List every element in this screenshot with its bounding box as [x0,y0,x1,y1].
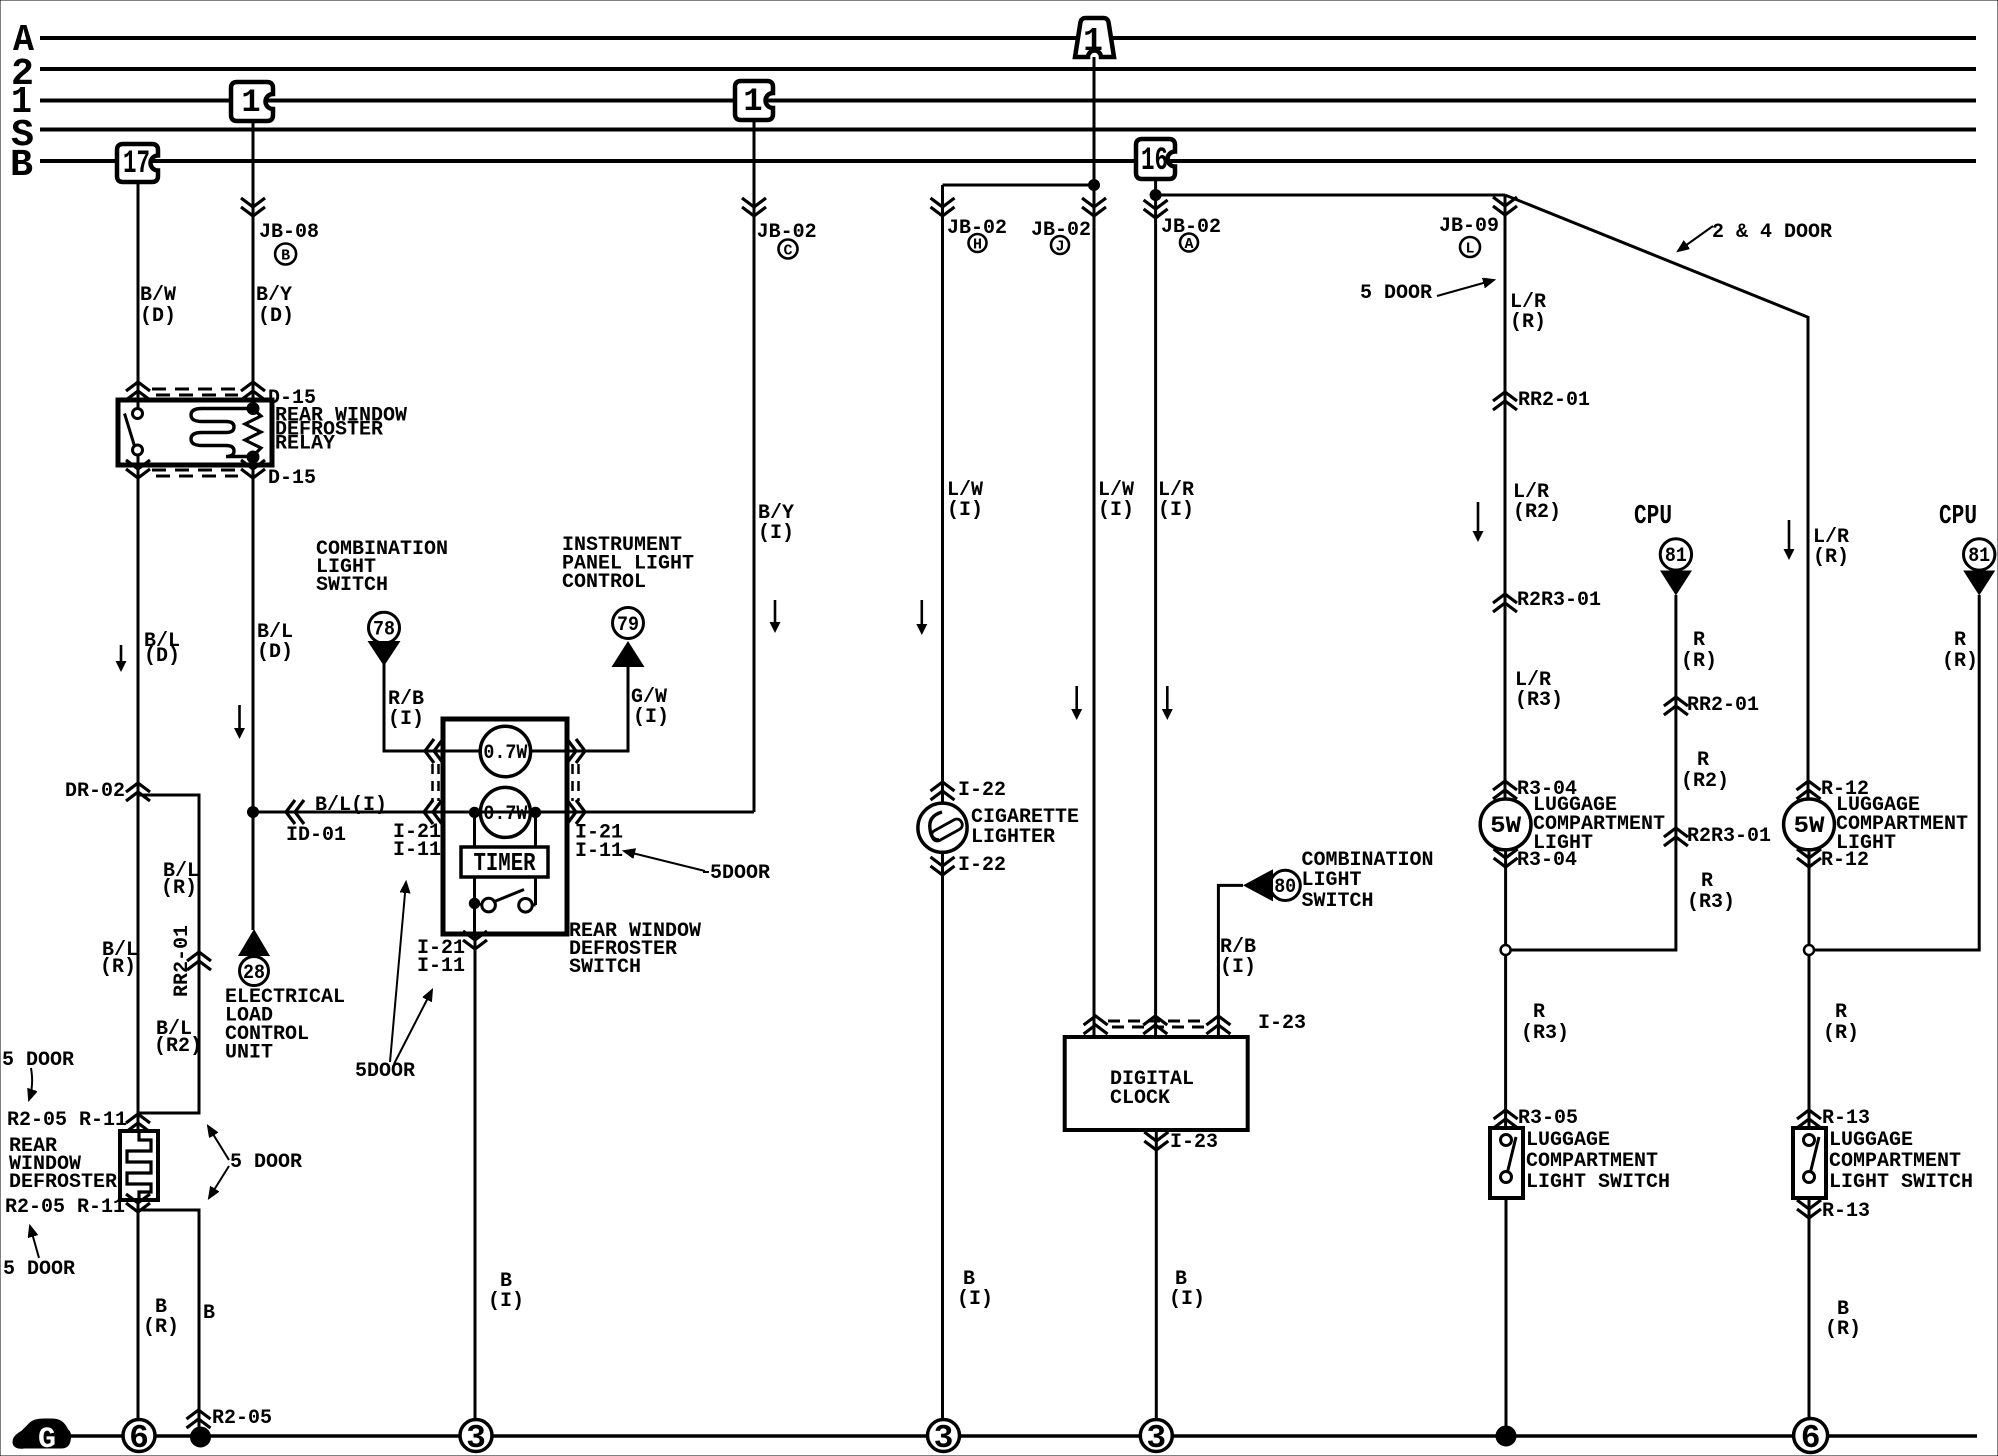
bulb 5W right luggage compartment light [1784,799,1835,850]
svg-text:L: L [1465,241,1474,258]
svg-text:SWITCH: SWITCH [1302,890,1374,913]
label L/R (R) [1510,291,1546,334]
svg-text:1: 1 [1083,23,1103,60]
relay coil [191,403,261,464]
svg-text:R2R3-01: R2R3-01 [1687,825,1771,848]
svg-text:JB-09: JB-09 [1439,215,1499,238]
svg-text:(I): (I) [1098,499,1134,522]
label REAR WINDOW DEFROSTER SWITCH [569,920,701,979]
connector R3-04 above bulb [1493,778,1577,801]
svg-text:(R): (R) [1510,311,1546,334]
relay box rear window defroster relay [118,400,272,465]
svg-text:I-11: I-11 [417,955,465,978]
svg-text:(D): (D) [144,645,180,668]
svg-text:1: 1 [743,83,762,120]
svg-text:B: B [281,248,290,265]
wire G/W from bulb to 79 [531,667,629,751]
label L/R (R3) [1515,669,1563,712]
flow arrow lighter wire [916,600,927,635]
wire branch to R2-05 bus dot [138,1210,199,1428]
svg-text:R: R [1533,1001,1545,1024]
connector I-21 I-11 right edge of switch [567,739,623,863]
svg-text:(I): (I) [633,706,669,729]
svg-text:79: 79 [617,614,639,637]
connector RR2-01 cpu left [1664,694,1759,717]
svg-text:R: R [1697,749,1709,772]
connector R2R3-01 cpu left [1664,825,1771,848]
junction ring left [1501,945,1511,955]
connector JB-08 with circled B [241,198,319,265]
svg-text:RR2-01: RR2-01 [171,925,194,997]
connector JB-02 with circled C [742,198,817,260]
svg-text:LIGHTER: LIGHTER [971,826,1055,849]
label COMBINATION LIGHT SWITCH [316,538,448,597]
connector 28 electrical load control unit [238,929,270,986]
svg-text:5 DOOR: 5 DOOR [230,1151,302,1174]
connector 80 combination light switch [1243,869,1300,901]
label B (R) [143,1296,179,1339]
label CIGARETTE LIGHTER [971,806,1079,849]
connector R2R3-01 [1493,589,1601,612]
label REAR WINDOW DEFROSTER [9,1135,117,1194]
wire bulb to switch left column [1504,850,1507,1128]
svg-text:6: 6 [129,1420,149,1456]
svg-text:3: 3 [466,1420,486,1456]
svg-text:5 DOOR: 5 DOOR [2,1049,74,1072]
svg-text:JB-08: JB-08 [259,221,319,244]
label 5 DOOR upper left with arrow [2,1049,74,1100]
connector R2-05 at bus [187,1407,273,1430]
digital clock box [1065,1037,1248,1130]
label L/R (R2) [1513,481,1561,524]
svg-text:(I): (I) [488,1290,524,1313]
svg-text:J: J [1055,239,1064,256]
flow arrow on left wire [116,645,127,672]
svg-text:LIGHT SWITCH: LIGHT SWITCH [1829,1171,1973,1194]
svg-text:R2-05 R-11: R2-05 R-11 [7,1109,127,1132]
svg-text:78: 78 [373,619,395,642]
svg-text:RR2-01: RR2-01 [1518,389,1590,412]
bus junction dot R2-05 [191,1427,211,1447]
wire branch to cigarette lighter [943,185,1095,803]
connector DR-02 [65,780,150,803]
wire bulb to switch right column [1808,850,1811,1128]
connector 1 on bus 1 (center) [735,81,773,120]
svg-text:(R3): (R3) [1687,891,1735,914]
label R (R) cpu right [1942,629,1978,673]
svg-text:LIGHT SWITCH: LIGHT SWITCH [1526,1171,1670,1194]
power bus line B [40,159,1976,163]
bus circle 3 middle [928,1420,960,1456]
svg-text:5DOOR: 5DOOR [710,862,770,885]
bus circle 3 left [460,1420,492,1456]
connector R-13 below switch [1797,1200,1870,1223]
svg-text:(I): (I) [388,708,424,731]
wire B/Y feed from connector 1 (left) to relay coil [252,121,255,407]
connector R-12 above bulb [1797,778,1870,801]
label R (R3) bottom [1521,1001,1569,1045]
bulb 0.7W top [480,726,530,776]
connector 1 on bus 1 (left) [231,82,273,121]
label R (R3) cpu left [1687,870,1735,914]
label L/W (I) lighter [947,479,983,522]
label LUGGAGE COMPARTMENT LIGHT SWITCH right [1829,1129,1973,1194]
flow arrow right of center feed [770,600,781,633]
connector JB-02 with circled J [1031,198,1106,256]
svg-text:R: R [1954,629,1966,652]
wire L/R left column to bulb [1504,195,1507,799]
wire B/L(I) horizontal through switch [253,811,754,814]
svg-text:(I): (I) [1158,499,1194,522]
label B (I) clock [1169,1268,1205,1311]
svg-text:I-22: I-22 [958,854,1006,877]
ground bus line [67,1434,1977,1438]
connector R-12 below bulb [1797,849,1869,872]
junction dots at timer leads [469,807,540,817]
label 5 DOOR lower left with arrow [3,1226,75,1281]
svg-text:5DOOR: 5DOOR [355,1060,415,1083]
svg-text:(R): (R) [1681,650,1717,673]
svg-text:UNIT: UNIT [225,1042,273,1065]
connector R3-04 below bulb [1494,849,1577,872]
svg-text:0.7W: 0.7W [483,803,527,826]
svg-text:B/W: B/W [140,284,176,307]
bus label B [10,144,33,187]
connector I-21 I-11 left edge of switch [393,739,443,862]
svg-text:LUGGAGE: LUGGAGE [1526,1129,1610,1152]
connector I-22 below lighter [931,854,1007,877]
wire junction to electrical load control unit [252,812,255,930]
connector I-21 I-11 below switch [417,931,487,978]
wire CPU branch right [1809,595,1979,950]
label INSTRUMENT PANEL LIGHT CONTROL [562,534,694,594]
luggage compartment light switch left [1490,1128,1523,1198]
wire R/B from 80 to clock [1218,885,1243,1037]
connector 17 on bus B [117,144,158,182]
wire switch to ground bus [474,934,477,1420]
svg-text:LIGHT: LIGHT [1302,869,1362,892]
connector RR2-01 [1493,389,1590,412]
svg-text:B/L(I): B/L(I) [315,794,387,817]
label REAR WINDOW DEFROSTER RELAY [275,405,407,456]
label B [203,1302,215,1325]
svg-text:I-11: I-11 [575,840,623,863]
connector I-22 above lighter [931,779,1007,802]
connector 78 combination light switch [368,612,401,666]
svg-text:(I): (I) [957,1288,993,1311]
svg-text:5 DOOR: 5 DOOR [3,1258,75,1281]
svg-text:R-13: R-13 [1822,1200,1870,1223]
ground symbol G (body ground) [13,1419,71,1456]
connector D-15 below relay [126,460,316,490]
bulb 0.7W bottom [480,787,530,837]
svg-text:2 & 4 DOOR: 2 & 4 DOOR [1712,221,1832,244]
label L/W (I) clock [1098,479,1134,522]
flow arrow clock wire J [1071,686,1082,720]
label LUGGAGE COMPARTMENT LIGHT right [1836,794,1968,855]
label B (R) right [1825,1298,1861,1341]
power bus line 1 [40,99,1976,103]
bus label 2 [11,53,34,96]
svg-text:LUGGAGE: LUGGAGE [1829,1129,1913,1152]
wire diagonal 2and4 door branch [1505,195,1808,799]
connector RR2-01 on loop [171,925,211,997]
wire 16 junction to JB-09 [1156,194,1505,197]
svg-text:G: G [38,1423,56,1456]
label R (R) bottom right [1823,1001,1859,1045]
svg-text:SWITCH: SWITCH [316,574,388,597]
connector 81 CPU right [1963,539,1995,596]
wire loop 5-door branch RR2-01 [138,795,199,1113]
label B/L (D) left [144,630,180,668]
svg-text:COMPARTMENT: COMPARTMENT [1526,1150,1658,1173]
svg-text:R2-05 R-11: R2-05 R-11 [5,1196,125,1219]
svg-text:(R): (R) [100,956,136,979]
label 2 and 4 DOOR with arrow [1678,221,1832,251]
svg-text:(D): (D) [140,305,176,328]
connector R2-05 R-11 above defroster [7,1109,150,1132]
svg-text:I-23: I-23 [1258,1012,1306,1035]
junction dot below connector 16 [1150,190,1161,201]
svg-text:80: 80 [1274,876,1296,899]
svg-text:(D): (D) [257,641,293,664]
svg-text:ID-01: ID-01 [286,824,346,847]
bus label 1 [11,81,32,124]
label L/R (I) [1158,479,1194,522]
flow arrow right column [1784,520,1795,560]
luggage compartment light switch right [1793,1128,1826,1198]
wire clock to ground bus [1155,1130,1158,1420]
svg-text:(R): (R) [143,1316,179,1339]
label B/Y (I) [758,502,794,545]
label B/W (D) [140,284,176,328]
wire switch to circle 6 right [1808,1198,1811,1419]
svg-text:R: R [1693,629,1705,652]
connector JB-02 with circled A [1144,200,1221,253]
svg-text:B/Y: B/Y [256,284,292,307]
connector ID-01 [286,800,346,847]
wire CPU branch left [1506,595,1676,950]
label R (R2) [1681,749,1729,793]
svg-text:(R): (R) [1942,650,1978,673]
connector R-13 above switch [1797,1107,1870,1130]
wire switch to bus dot left [1505,1198,1508,1430]
label 5DOOR with two arrows [355,882,432,1083]
svg-text:R: R [1701,870,1713,893]
power bus line A [40,36,1976,40]
svg-text:B: B [203,1302,215,1325]
flow arrow clock wire A [1162,686,1173,720]
power bus line 2 [40,67,1976,71]
wire R/B from 78 to switch bulb [384,664,481,751]
connector JB-02 with circled H [931,198,1008,254]
label LUGGAGE COMPARTMENT LIGHT left [1533,794,1665,855]
svg-text:3: 3 [934,1420,954,1456]
svg-text:H: H [973,237,982,254]
label R/B (I) clock [1220,936,1256,979]
svg-text:(I): (I) [1169,1288,1205,1311]
label CPU right [1939,502,1977,532]
svg-text:R-12: R-12 [1821,849,1869,872]
wire B/W feed from connector 17 [137,182,140,400]
flow arrow left column [1473,502,1484,542]
connector 81 CPU left [1660,539,1692,596]
svg-text:DEFROSTER: DEFROSTER [9,1171,117,1194]
svg-text:R3-05: R3-05 [1518,1107,1578,1130]
fuse connector 1 on bus A (trapezoid) [1075,18,1114,60]
svg-text:5W: 5W [1490,813,1521,839]
svg-text:6: 6 [1801,1420,1821,1456]
svg-text:B: B [10,144,33,187]
label B/L (R) inside loop [161,860,199,900]
svg-text:17: 17 [123,145,150,182]
svg-text:SWITCH: SWITCH [569,956,641,979]
svg-text:C: C [783,243,792,260]
svg-text:R-13: R-13 [1822,1107,1870,1130]
svg-text:D-15: D-15 [268,467,316,490]
bus circle 6 right [1794,1419,1828,1456]
relay switch contacts [125,400,143,465]
svg-text:81: 81 [1665,545,1687,568]
label ELECTRICAL LOAD CONTROL UNIT [225,986,345,1065]
svg-text:I-22: I-22 [958,779,1006,802]
rear window defroster switch box [443,719,567,934]
defroster switch contacts [469,890,535,913]
svg-text:3: 3 [1146,1420,1166,1456]
bulb 5W left luggage compartment light [1480,799,1531,850]
svg-text:(I): (I) [947,499,983,522]
wire B/Y (I) feed from connector 1 (center) [753,120,756,812]
junction dot B/L(I) [248,807,259,818]
svg-text:81: 81 [1968,545,1990,568]
timer box [461,847,548,878]
svg-text:I-23: I-23 [1170,1131,1218,1154]
wire B/L (D) left relay to defroster [137,465,140,1131]
label B/L (R2) [154,1018,202,1058]
svg-text:R: R [1835,1001,1847,1024]
svg-text:TIMER: TIMER [474,848,536,878]
flow arrow on center wire [234,705,245,739]
connector I-23 above clock [1084,1012,1306,1035]
svg-text:(R2): (R2) [1681,770,1729,793]
wire defroster element to ground bus [137,1200,140,1420]
bus junction dot right [1496,1426,1516,1446]
svg-text:CLOCK: CLOCK [1110,1087,1170,1110]
svg-text:COMPARTMENT: COMPARTMENT [1829,1150,1961,1173]
junction ring right [1804,945,1814,955]
bus circle 3 right [1140,1420,1172,1456]
svg-text:(R): (R) [1825,1318,1861,1341]
svg-text:1: 1 [241,84,260,121]
svg-text:(R3): (R3) [1515,689,1563,712]
bus circle 6 left [123,1420,155,1456]
svg-text:RELAY: RELAY [275,433,335,456]
svg-text:DR-02: DR-02 [65,780,125,803]
svg-text:R2-05: R2-05 [212,1407,272,1430]
svg-text:CPU: CPU [1634,502,1672,532]
svg-text:(R2): (R2) [1513,501,1561,524]
cigarette lighter [918,803,967,852]
junction dot on fuse wire [1089,180,1100,191]
label CPU left [1634,502,1672,532]
label G/W (I) [631,686,669,729]
label 5DOOR arrow to I-11 [624,851,770,885]
label B (I) left [488,1270,524,1313]
svg-text:16: 16 [1141,142,1168,179]
connector D-15 above relay [126,382,316,410]
rear window defroster element [120,1131,158,1200]
wire lighter to ground bus [941,852,944,1420]
power bus line S [40,128,1976,132]
svg-text:5W: 5W [1794,813,1825,839]
label B/L(I) [315,794,387,817]
label B/L (R) left of wire [100,939,138,979]
wire L/W feed to clock [1093,185,1096,1037]
svg-text:RR2-01: RR2-01 [1687,694,1759,717]
label LUGGAGE COMPARTMENT LIGHT SWITCH left [1526,1129,1670,1194]
svg-text:(I): (I) [758,522,794,545]
label B/L (D) center [257,621,293,664]
label B/Y (D) [256,284,294,328]
svg-text:CPU: CPU [1939,502,1977,532]
connector 79 instrument panel light control [612,608,645,668]
wire L/R feed to clock [1154,195,1157,1037]
connector R3-05 [1494,1107,1578,1130]
wire B/L (D) center relay coil to junction [252,457,255,812]
svg-text:28: 28 [243,962,265,985]
connector R2-05 R-11 below defroster [5,1194,150,1219]
bus label S [11,114,34,157]
svg-text:5 DOOR: 5 DOOR [1360,282,1432,305]
label 5 DOOR with arrow [1360,280,1494,305]
wire feed from connector 16 [1154,179,1157,195]
connector 16 on bus B [1136,139,1175,179]
label 5 DOOR right of defroster with two arrows [208,1126,302,1198]
svg-text:R3-04: R3-04 [1517,849,1577,872]
label R/B (I) [388,688,424,731]
svg-text:I-11: I-11 [393,839,441,862]
bus label A [13,19,34,62]
timer leads [475,812,536,934]
svg-text:(I): (I) [1220,956,1256,979]
svg-text:(R): (R) [161,877,197,900]
label L/R (R) right column [1813,526,1849,569]
svg-text:CONTROL: CONTROL [562,571,646,594]
svg-text:(R): (R) [1823,1022,1859,1045]
connector JB-09 with circled L [1439,197,1517,258]
svg-text:(R): (R) [1813,546,1849,569]
svg-text:(R2): (R2) [154,1035,202,1058]
svg-text:(D): (D) [258,305,294,328]
label R (R) cpu left [1681,629,1717,673]
wire feed from fuse 1 on bus A [1093,57,1096,185]
svg-text:0.7W: 0.7W [483,742,527,765]
svg-text:R2R3-01: R2R3-01 [1517,589,1601,612]
label COMBINATION LIGHT SWITCH right [1302,849,1434,913]
svg-text:(R3): (R3) [1521,1022,1569,1045]
label B (I) lighter [957,1268,993,1311]
svg-text:A: A [1184,236,1193,253]
connector I-23 below clock [1144,1131,1218,1154]
